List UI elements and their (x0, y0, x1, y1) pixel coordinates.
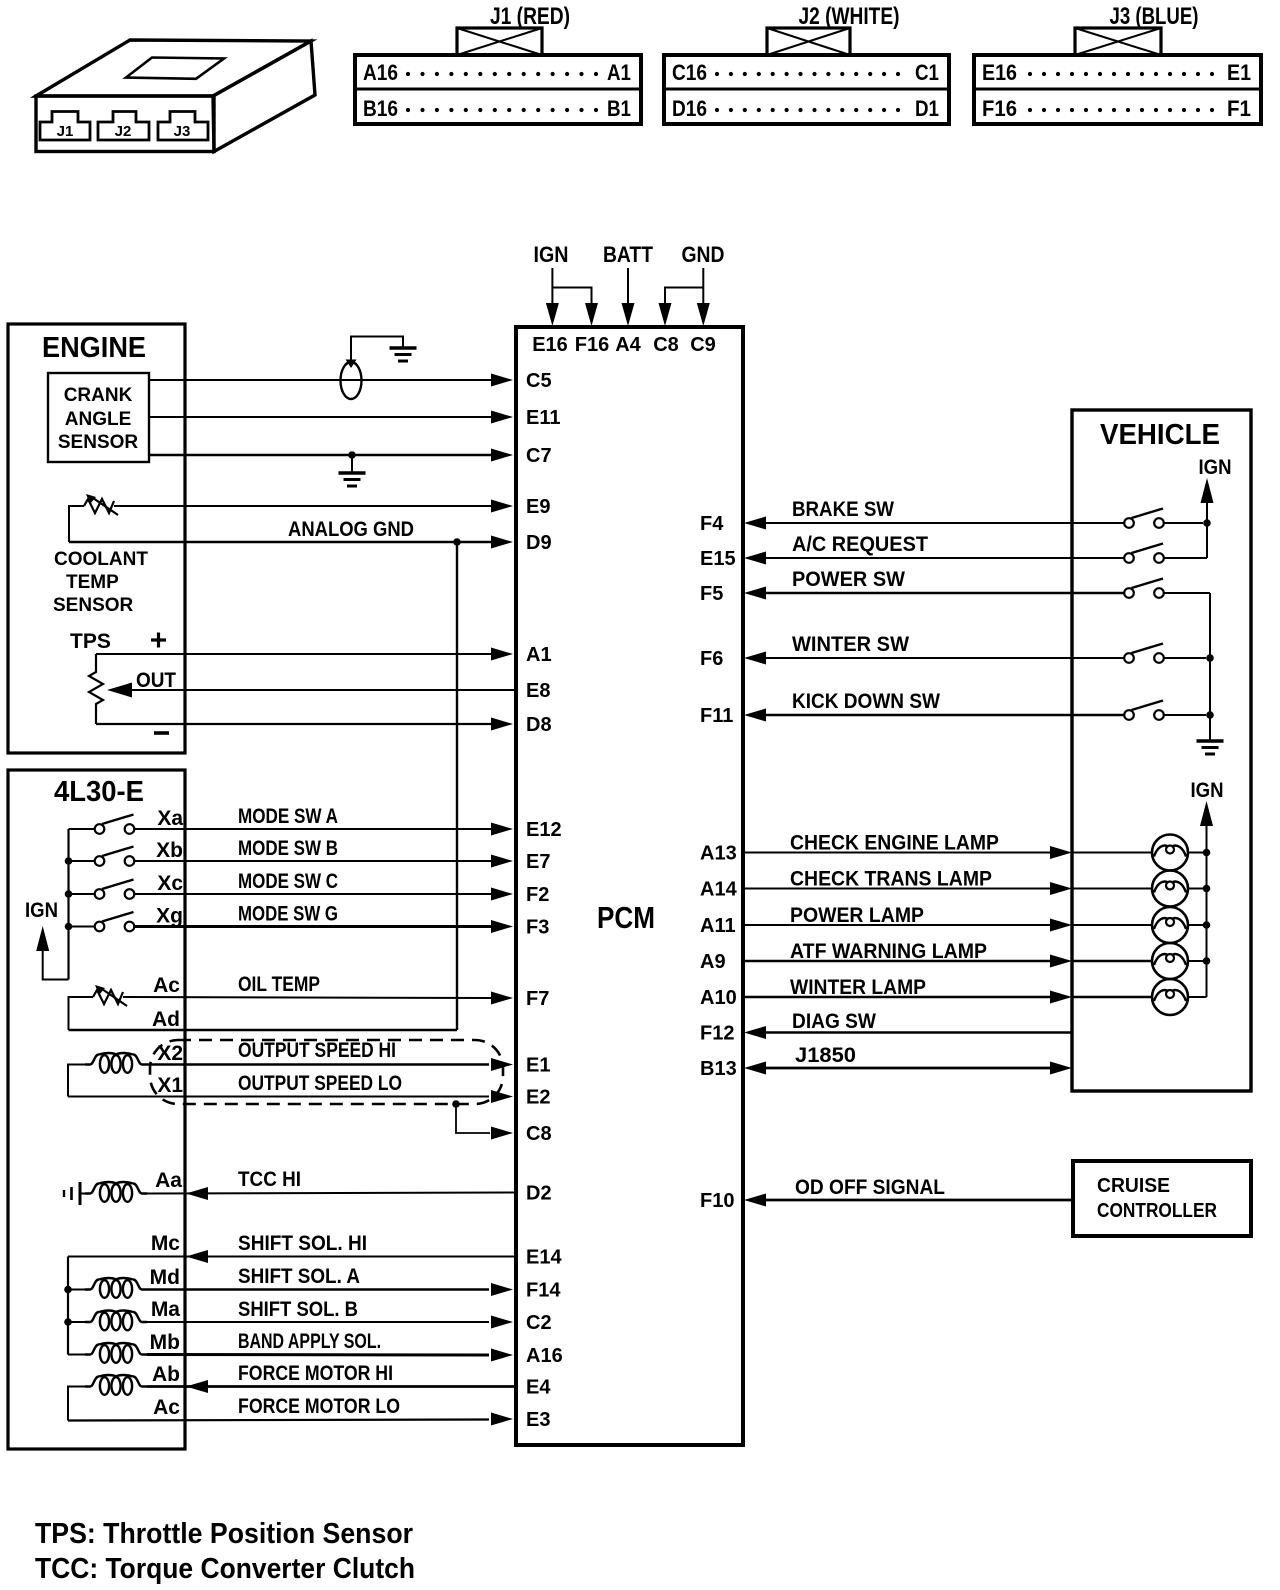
switch Xb (95, 856, 105, 866)
svg-text:D16: D16 (672, 96, 707, 121)
svg-text:F16: F16 (575, 334, 609, 356)
wire lamp to rail (1188, 852, 1207, 854)
svg-text:E3: E3 (526, 1409, 550, 1431)
svg-text:X1: X1 (157, 1074, 183, 1097)
wire lamp to rail (1188, 996, 1207, 998)
TCC solenoid coil Aa (85, 1184, 99, 1194)
wire DIAG SW to pin F12 (744, 1026, 766, 1039)
wire coolant sensor to pin E9 (114, 505, 492, 507)
switch BRAKE SW (1124, 518, 1134, 528)
svg-text:A10: A10 (700, 987, 737, 1009)
wire J1850 between PCM and vehicle (744, 1062, 766, 1075)
shield ellipse on C5 wire (341, 362, 362, 399)
switch Xa (95, 824, 105, 834)
svg-text:ENGINE: ENGINE (42, 332, 146, 364)
4L30-E box (8, 770, 185, 1449)
wire MODE SW G to PCM (134, 925, 492, 928)
wire rail to switch Xb (69, 860, 95, 862)
wire IGN rail in 4L30-E (67, 829, 69, 980)
svg-text:F10: F10 (700, 1190, 734, 1212)
wire WINTER SW to pin F6 (744, 652, 766, 665)
svg-text:COOLANT: COOLANT (54, 549, 148, 570)
TPS + terminal (151, 638, 166, 641)
wire coil to X1 (68, 1065, 85, 1097)
svg-text:E8: E8 (526, 680, 550, 702)
shift solenoid coil Md (85, 1280, 99, 1290)
oil temp sensor (thermistor) (93, 990, 123, 1004)
wire rail to Md coil (68, 1289, 85, 1291)
svg-text:E16: E16 (532, 334, 568, 356)
wire MODE SW A to PCM (134, 828, 492, 830)
svg-text:B16: B16 (363, 96, 398, 121)
svg-text:PCM: PCM (597, 900, 655, 935)
wire FORCE MOTOR HI from pin E4 (147, 1385, 514, 1388)
svg-text:ATF WARNING LAMP: ATF WARNING LAMP (790, 940, 987, 963)
svg-text:E4: E4 (526, 1377, 551, 1399)
svg-text:CHECK ENGINE LAMP: CHECK ENGINE LAMP (790, 832, 999, 855)
wire WINTER LAMP from pin A10 (744, 996, 1050, 998)
svg-text:MODE SW B: MODE SW B (238, 837, 338, 860)
svg-text:CHECK TRANS LAMP: CHECK TRANS LAMP (790, 868, 992, 891)
svg-text:C7: C7 (526, 445, 552, 467)
svg-text:Mb: Mb (150, 1331, 180, 1354)
svg-text:KICK DOWN SW: KICK DOWN SW (792, 690, 940, 713)
wire lamp to rail (1188, 960, 1207, 962)
svg-text:E11: E11 (526, 407, 560, 429)
svg-text:J3: J3 (174, 123, 191, 140)
wire rail to Mb coil (68, 1354, 85, 1356)
node lamp rail (1203, 957, 1211, 965)
wire POWER LAMP from pin A11 (744, 924, 1050, 926)
wire SHIFT SOL. B to pin C2 (147, 1321, 489, 1323)
wire BRAKE SW to pin F4 (744, 517, 766, 530)
svg-text:C1: C1 (915, 60, 939, 85)
svg-text:TCC: Torque Converter Clutch: TCC: Torque Converter Clutch (35, 1553, 415, 1585)
ground below kick down rail (1197, 739, 1224, 743)
wire CHECK ENGINE LAMP from pin A13 (744, 852, 1050, 854)
svg-text:F2: F2 (526, 884, 549, 906)
svg-text:ANGLE: ANGLE (65, 409, 132, 430)
wire TPS + to pin A1 (96, 653, 492, 655)
svg-text:A/C REQUEST: A/C REQUEST (792, 533, 928, 556)
wire CHECK TRANS LAMP from pin A14 (744, 888, 1050, 890)
wire MODE SW C to PCM (134, 893, 492, 895)
wire KICK DOWN SW to pin F11 (744, 709, 766, 722)
connector J2 (WHITE) keying tab (767, 28, 850, 55)
node analog gnd junction (453, 538, 461, 546)
wire TCC HI from pin D2 (147, 1193, 514, 1194)
svg-text:FORCE MOTOR HI: FORCE MOTOR HI (238, 1362, 393, 1385)
svg-text:Xa: Xa (157, 807, 183, 830)
svg-text:OIL TEMP: OIL TEMP (238, 973, 320, 996)
svg-text:TPS: Throttle Position Sensor: TPS: Throttle Position Sensor (35, 1518, 413, 1550)
wire FORCE MOTOR LO to pin E3 (68, 1420, 489, 1421)
svg-text:F16: F16 (982, 96, 1017, 121)
svg-text:OUTPUT SPEED HI: OUTPUT SPEED HI (238, 1039, 396, 1062)
svg-text:MODE SW G: MODE SW G (238, 903, 338, 926)
node Ma (64, 1318, 72, 1326)
wire kickdown sw to rail (1164, 714, 1206, 716)
svg-text:E12: E12 (526, 819, 562, 841)
svg-text:IGN: IGN (534, 242, 569, 267)
wire GND to pins C8 C9 (702, 268, 704, 303)
node shield drain (452, 1100, 460, 1108)
svg-text:C8: C8 (653, 334, 679, 356)
svg-text:E9: E9 (526, 496, 550, 518)
wire shield drain to pin C8 (456, 1104, 490, 1133)
svg-text:F4: F4 (700, 513, 724, 535)
svg-text:C16: C16 (672, 60, 707, 85)
svg-text:SENSOR: SENSOR (53, 595, 134, 616)
node lamp rail (1203, 885, 1211, 893)
ground on C7 wire (339, 471, 366, 475)
wire OIL TEMP to pin F7 (123, 997, 492, 998)
output speed sensor coil (85, 1055, 99, 1065)
svg-text:D2: D2 (526, 1183, 552, 1205)
svg-text:D1: D1 (915, 96, 939, 121)
svg-text:Md: Md (150, 1266, 180, 1289)
wire Ad to analog gnd (69, 1029, 458, 1031)
svg-text:C9: C9 (690, 334, 716, 356)
svg-text:A1: A1 (607, 60, 631, 85)
svg-text:Ab: Ab (152, 1363, 180, 1386)
wire winter sw to rail (1164, 657, 1206, 659)
svg-text:SENSOR: SENSOR (58, 432, 139, 453)
svg-text:IGN: IGN (1199, 456, 1232, 479)
lamp CHECK ENGINE LAMP (1152, 835, 1188, 871)
switch POWER SW (1124, 588, 1134, 598)
svg-text:BRAKE SW: BRAKE SW (792, 498, 894, 521)
PCM box (516, 327, 743, 1445)
PCM module 3D view (36, 40, 315, 152)
svg-text:SHIFT SOL. HI: SHIFT SOL. HI (238, 1232, 367, 1255)
svg-text:WINTER LAMP: WINTER LAMP (790, 976, 926, 999)
svg-text:A16: A16 (363, 60, 398, 85)
crank angle sensor box (48, 373, 149, 462)
wire rail to switch Xg (69, 926, 95, 928)
lamp CHECK TRANS LAMP (1152, 871, 1188, 907)
svg-text:GND: GND (682, 242, 725, 267)
svg-text:DIAG SW: DIAG SW (792, 1010, 876, 1033)
svg-text:OD OFF SIGNAL: OD OFF SIGNAL (795, 1176, 945, 1199)
svg-text:C8: C8 (526, 1123, 552, 1145)
svg-text:F7: F7 (526, 988, 549, 1010)
svg-text:Aa: Aa (155, 1169, 182, 1192)
node on C7 wire (348, 451, 356, 459)
connector J3 slot on module (158, 112, 208, 141)
wire lamp to rail (1188, 924, 1207, 926)
svg-text:TPS: TPS (70, 630, 111, 653)
node Xc (65, 890, 73, 898)
svg-text:IGN: IGN (1191, 779, 1224, 802)
switch WINTER SW (1124, 653, 1134, 663)
svg-text:CRANK: CRANK (64, 385, 133, 406)
wire Ab to Ac (68, 1387, 85, 1421)
svg-text:POWER LAMP: POWER LAMP (790, 904, 924, 927)
wire crank sensor to pin C5 (149, 379, 492, 381)
wire IGN rail for brake/ac switches (1201, 478, 1214, 503)
lamp ATF WARNING LAMP (1152, 943, 1188, 979)
svg-text:F11: F11 (700, 705, 733, 727)
wire BAND APPLY SOL. to pin A16 (147, 1353, 489, 1357)
svg-text:F5: F5 (700, 583, 723, 605)
svg-text:J1850: J1850 (795, 1044, 856, 1067)
force motor coil Ab (85, 1377, 99, 1387)
wire rail to Ma coil (68, 1321, 85, 1323)
shield (dashed) around output speed pair (150, 1040, 503, 1104)
svg-text:SHIFT SOL. B: SHIFT SOL. B (238, 1298, 358, 1321)
shift solenoid coil Ma (85, 1312, 99, 1322)
connector J2 slot on module (98, 112, 149, 141)
svg-text:D9: D9 (526, 532, 552, 554)
wire OUTPUT SPEED HI to pin E1 (147, 1063, 489, 1066)
svg-text:OUTPUT SPEED LO: OUTPUT SPEED LO (238, 1072, 402, 1095)
connector J3 (BLUE) pin dots (1028, 72, 1032, 76)
svg-text:BATT: BATT (603, 242, 653, 267)
svg-text:B1: B1 (607, 96, 631, 121)
switch KICK DOWN SW (1124, 710, 1134, 720)
node F11 rail (1206, 711, 1214, 719)
TPS wiper arrow OUT (107, 683, 132, 698)
node Md (64, 1286, 72, 1294)
svg-text:IGN: IGN (25, 899, 58, 922)
switch A/C REQUEST (1124, 553, 1134, 563)
wire OUTPUT SPEED LO to pin E2 (68, 1096, 489, 1098)
svg-text:F1: F1 (1227, 96, 1251, 121)
svg-text:F6: F6 (700, 648, 723, 670)
svg-text:CRUISE: CRUISE (1097, 1175, 1170, 1197)
node F6 rail (1206, 654, 1214, 662)
connector J1 (RED) keying tab (457, 28, 542, 55)
wire ATF WARNING LAMP from pin A9 (744, 960, 1050, 962)
svg-text:B13: B13 (700, 1058, 737, 1080)
wire coolant sensor return (69, 506, 84, 542)
svg-text:Ac: Ac (153, 1396, 180, 1419)
connector J2 (WHITE) body (664, 55, 949, 124)
svg-text:E1: E1 (1227, 60, 1251, 85)
svg-text:E7: E7 (526, 851, 550, 873)
wire oil temp return (69, 997, 94, 1030)
ground (shield) (390, 346, 417, 350)
connector J3 (BLUE) keying tab (1075, 28, 1161, 55)
connector J1 (RED) body (355, 55, 641, 124)
svg-text:A13: A13 (700, 843, 737, 865)
wire OD OFF SIGNAL to pin F10 (744, 1194, 766, 1207)
wire rail to IGN arrow (43, 950, 69, 980)
svg-text:Mc: Mc (151, 1232, 180, 1255)
switch Xc (95, 889, 105, 899)
coolant temp sensor (thermistor) (84, 499, 114, 513)
svg-text:A4: A4 (615, 334, 641, 356)
lamp POWER LAMP (1152, 907, 1188, 943)
node Xb (65, 857, 73, 865)
TCC solenoid ground (79, 1182, 82, 1205)
wire MODE SW B to PCM (134, 860, 492, 862)
svg-text:A14: A14 (700, 879, 738, 901)
wire POWER SW to pin F5 (744, 587, 766, 600)
connector J1 (RED) pin dots (406, 72, 410, 76)
svg-text:VEHICLE: VEHICLE (1100, 419, 1220, 451)
wire to ground (351, 455, 353, 472)
node lamp rail (1203, 849, 1211, 857)
wire solenoid common rail (67, 1257, 69, 1355)
svg-text:A16: A16 (526, 1345, 563, 1367)
CRUISE CONTROLLER box (1073, 1161, 1251, 1236)
wire SHIFT SOL. A to pin F14 (147, 1288, 489, 1291)
svg-text:WINTER SW: WINTER SW (792, 633, 909, 656)
wire crank sensor to pin E11 (149, 416, 492, 418)
svg-text:MODE SW C: MODE SW C (238, 870, 338, 893)
ENGINE box (8, 324, 185, 753)
svg-text:C2: C2 (526, 1312, 552, 1334)
svg-text:A1: A1 (526, 644, 552, 666)
wire IGN to pins E16 F16 (551, 268, 553, 288)
band apply solenoid coil Mb (85, 1345, 99, 1355)
wire ANALOG GND to pin D9 (69, 541, 492, 543)
svg-text:ANALOG GND: ANALOG GND (288, 518, 414, 541)
svg-text:A11: A11 (700, 915, 736, 937)
svg-text:TCC HI: TCC HI (238, 1168, 301, 1191)
VEHICLE box (1072, 410, 1251, 1091)
switch Xg (95, 922, 105, 932)
wire IGN lamp rail (1200, 801, 1213, 826)
svg-text:4L30-E: 4L30-E (54, 776, 144, 808)
lamp WINTER LAMP (1152, 979, 1188, 1015)
wire lamp to rail (1188, 888, 1207, 890)
svg-text:E2: E2 (526, 1087, 550, 1109)
wire TPS - to pin D8 (96, 723, 492, 725)
wire rail to switch Xa (69, 828, 95, 830)
svg-text:Xc: Xc (157, 872, 183, 895)
svg-text:MODE SW A: MODE SW A (238, 805, 338, 828)
svg-text:Ac: Ac (153, 974, 180, 997)
node lamp rail (1203, 921, 1211, 929)
svg-text:SHIFT SOL. A: SHIFT SOL. A (238, 1265, 360, 1288)
wire TPS OUT to pin E8 (131, 689, 514, 691)
svg-text:J1: J1 (57, 123, 74, 140)
svg-text:J2: J2 (115, 123, 132, 140)
svg-text:E1: E1 (526, 1055, 550, 1077)
svg-text:Xb: Xb (156, 839, 183, 862)
svg-text:E15: E15 (700, 548, 736, 570)
svg-text:J1 (RED): J1 (RED) (490, 3, 570, 30)
wire brake sw to rail (1164, 522, 1203, 524)
node F4 rail (1203, 519, 1211, 527)
svg-text:Ad: Ad (152, 1008, 180, 1031)
svg-text:Ma: Ma (151, 1298, 180, 1321)
TPS potentiometer (89, 654, 103, 724)
svg-text:E14: E14 (526, 1247, 562, 1269)
svg-text:POWER SW: POWER SW (792, 568, 905, 591)
connector J3 (BLUE) body (974, 55, 1261, 124)
wire A/C REQUEST to pin E15 (744, 552, 766, 565)
wire rail to switch Xc (69, 893, 95, 895)
svg-text:J2 (WHITE): J2 (WHITE) (799, 3, 900, 30)
wire a/c sw to rail (1164, 557, 1207, 559)
svg-text:CONTROLLER: CONTROLLER (1097, 1200, 1217, 1222)
svg-text:A9: A9 (700, 951, 726, 973)
wire SHIFT SOL. HI from pin E14 (68, 1256, 514, 1258)
node Xg (65, 923, 73, 931)
wire rail for power/winter/kickdown switches (1164, 592, 1210, 594)
wire shield to ground (351, 337, 403, 362)
svg-text:Xg: Xg (156, 905, 183, 928)
svg-text:FORCE MOTOR LO: FORCE MOTOR LO (238, 1395, 400, 1418)
wire BATT to pin A4 (627, 268, 629, 303)
svg-text:F3: F3 (526, 917, 549, 939)
svg-text:F14: F14 (526, 1280, 561, 1302)
svg-text:TEMP: TEMP (66, 572, 119, 593)
connector J2 (WHITE) pin dots (715, 72, 719, 76)
svg-text:E16: E16 (982, 60, 1017, 85)
svg-text:BAND APPLY SOL.: BAND APPLY SOL. (238, 1330, 381, 1353)
connector J1 slot on module (40, 112, 90, 141)
TPS - terminal (154, 731, 169, 735)
svg-text:D8: D8 (526, 714, 552, 736)
svg-text:C5: C5 (526, 370, 552, 392)
svg-text:OUT: OUT (136, 669, 176, 692)
wire crank sensor to pin C7 (149, 454, 492, 456)
svg-text:F12: F12 (700, 1023, 734, 1045)
svg-text:J3 (BLUE): J3 (BLUE) (1110, 3, 1199, 30)
